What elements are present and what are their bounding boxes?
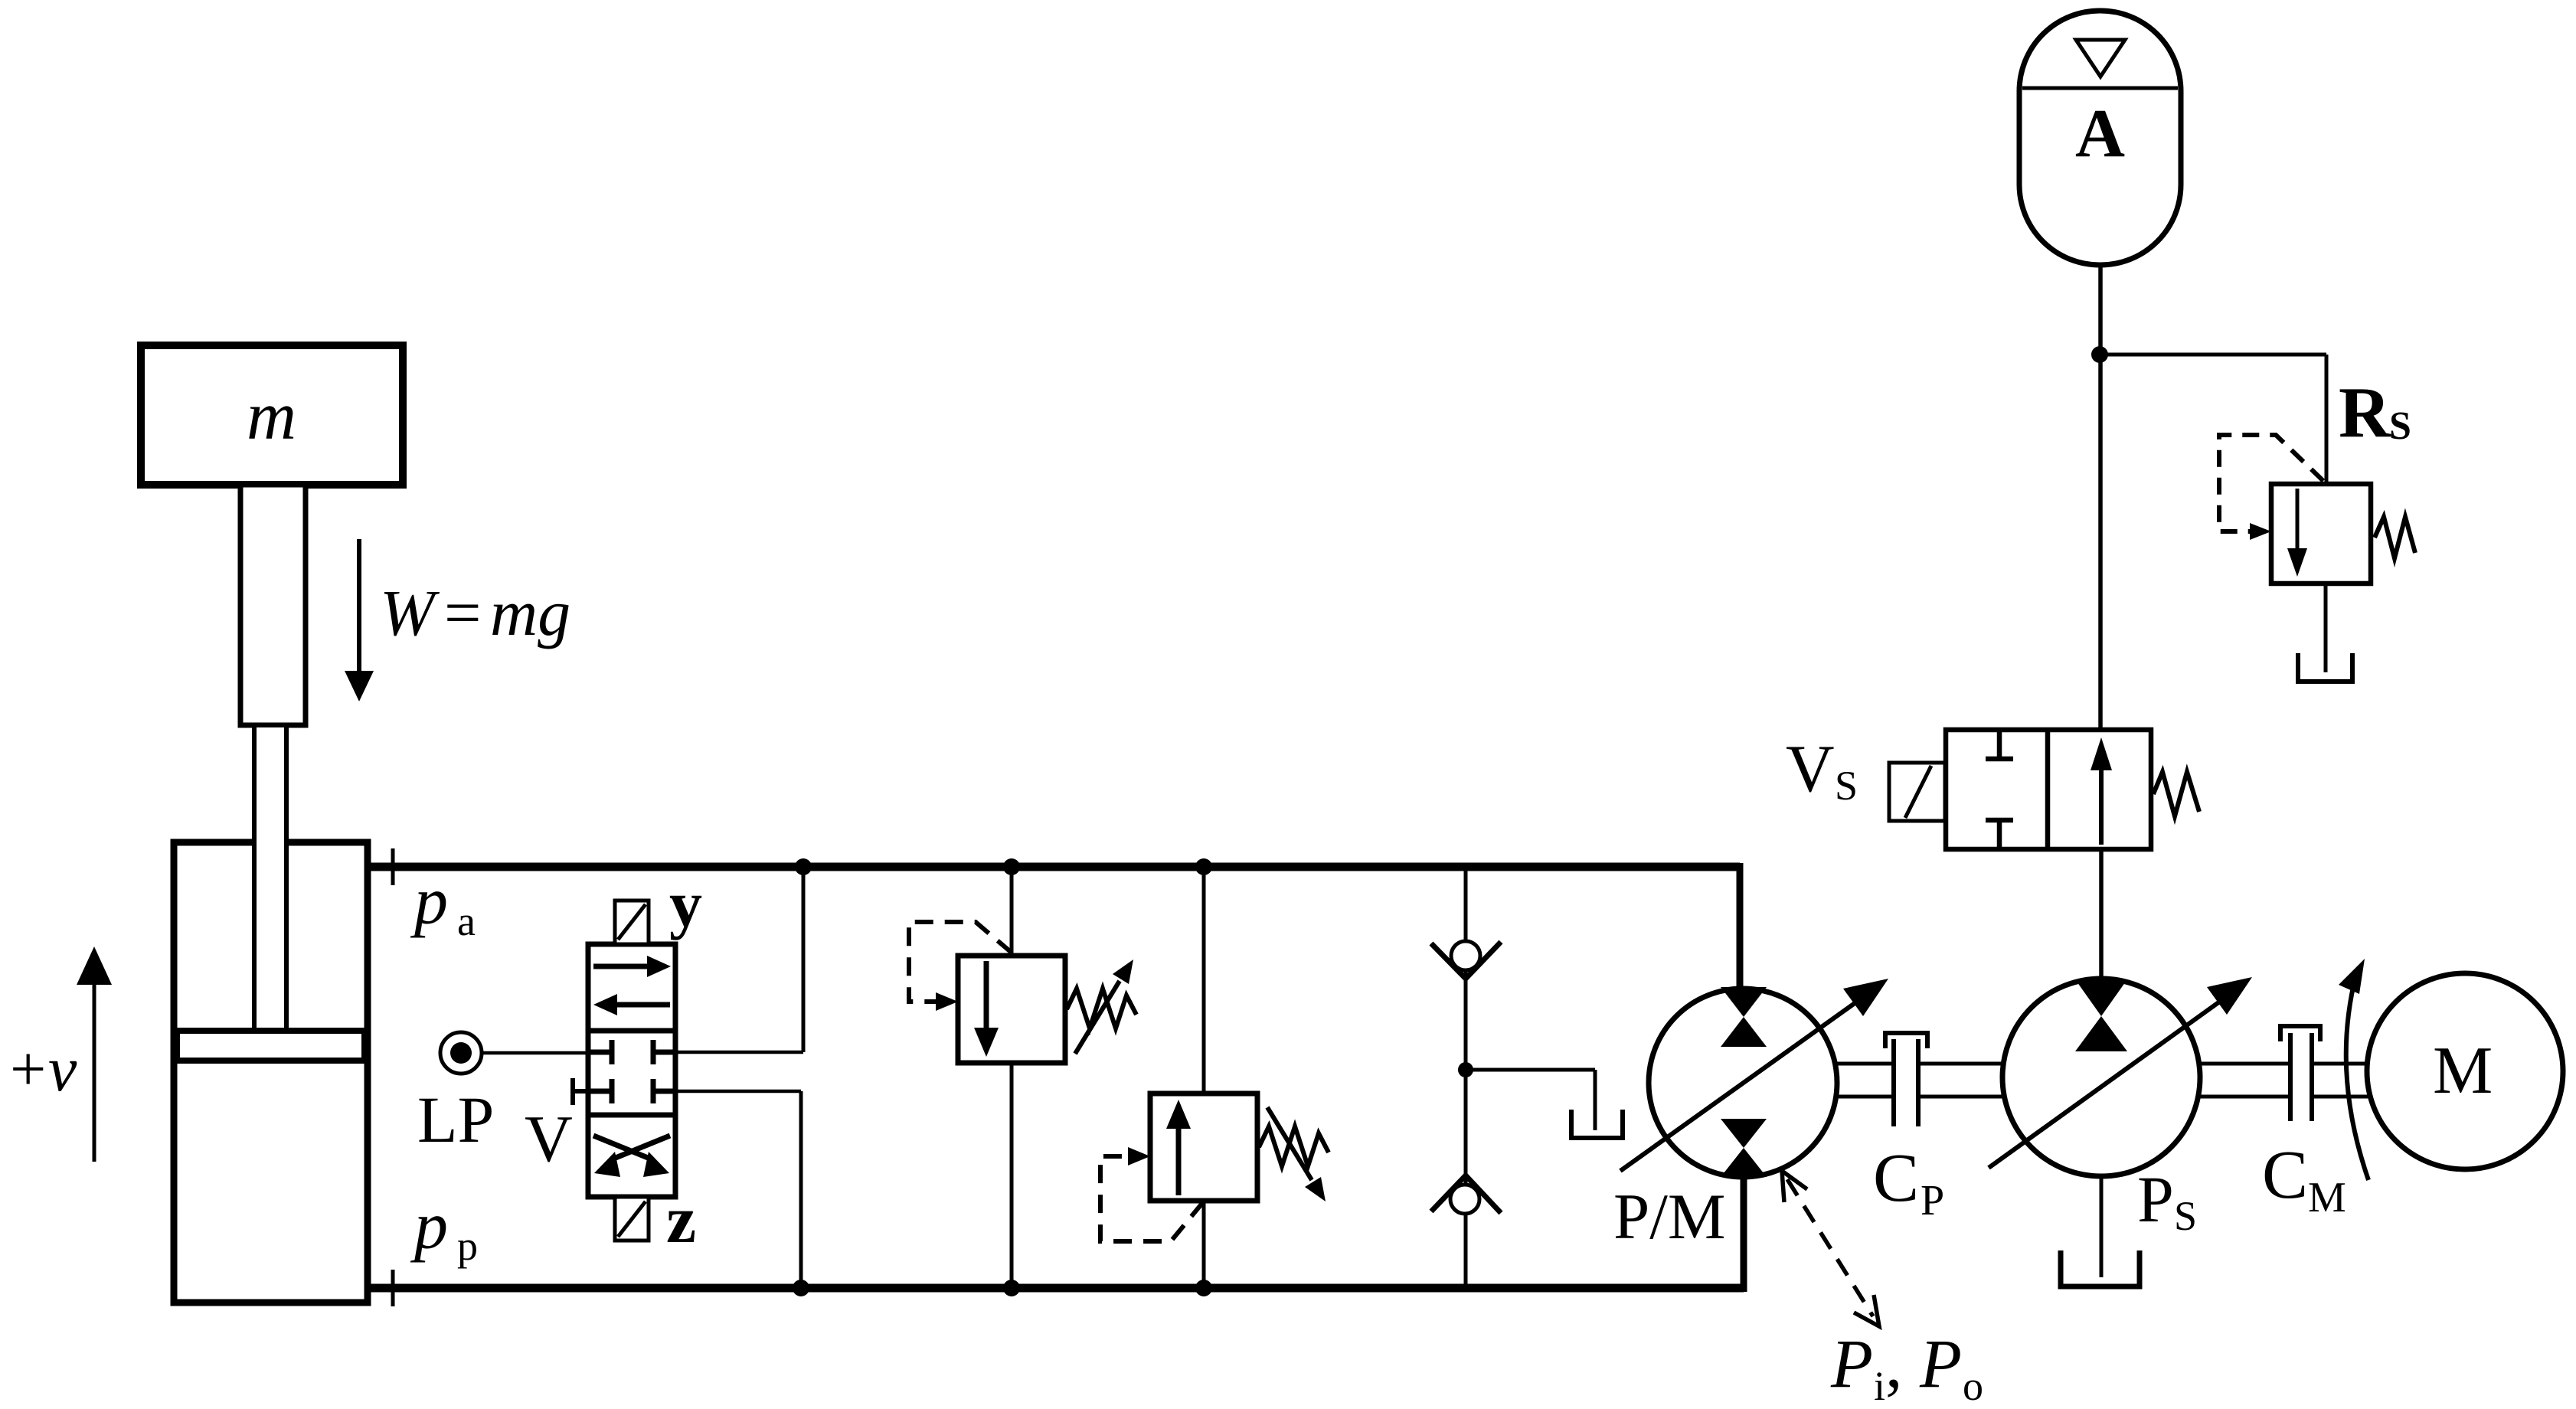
wire RS to tank (2324, 584, 2328, 672)
svg-text:A: A (2075, 96, 2125, 172)
svg-text:o: o (1963, 1363, 1983, 1409)
svg-text:S: S (2389, 404, 2411, 448)
node pp label (410, 1189, 478, 1269)
PS label (2137, 1162, 2197, 1239)
wire check valve branch (1464, 867, 1468, 1288)
valve V top solenoid y (615, 867, 702, 944)
accumulator A (2019, 11, 2181, 265)
wire relief valve 1 branch (1010, 867, 1014, 957)
PS variable displacement arrow (1989, 977, 2252, 1168)
P/M bottom element triangles (1721, 1119, 1767, 1177)
check valve upper (1431, 941, 1501, 979)
svg-text:z: z (666, 1183, 696, 1257)
wire VS down to pump PS (2099, 849, 2104, 980)
relief valve 1 internal arrow (974, 961, 999, 1057)
VS spring (2153, 772, 2199, 816)
svg-text:v: v (48, 1034, 77, 1105)
svg-text:a: a (457, 898, 476, 944)
junction dot bottom bus at valve branch (793, 1280, 809, 1296)
motor M circle (2367, 973, 2563, 1169)
relief valve RS pilot dashed line (2219, 435, 2323, 540)
wire PS to tank (2100, 1175, 2104, 1277)
relief valve 1 pilot dashed line (909, 922, 1012, 1011)
wire top bus pa (365, 863, 1740, 871)
solenoid valve VS body (1946, 730, 2151, 849)
svg-text:mg: mg (490, 576, 570, 649)
shaft CP to pump PS (1918, 1064, 2005, 1097)
shaft PS to coupling CM (2198, 1064, 2290, 1097)
svg-text:p: p (457, 1223, 478, 1269)
relief valve RS spring (2375, 517, 2415, 558)
tank between check valves (1571, 1110, 1623, 1138)
svg-text:i: i (1874, 1363, 1885, 1409)
svg-text:P: P (1830, 1326, 1873, 1402)
svg-text:S: S (2174, 1193, 2197, 1239)
valve V bottom cell crossed arrows (593, 1136, 670, 1177)
svg-text:+: + (10, 1034, 46, 1105)
port tick top (391, 848, 395, 885)
relief valve 2 body (1150, 1094, 1257, 1201)
wire valve V port A to top bus (675, 1051, 803, 1054)
svg-text:m: m (247, 378, 296, 454)
pump/motor P/M circle (1649, 989, 1837, 1177)
shaft CM to motor M (2312, 1064, 2368, 1097)
junction dot check branch (1458, 1062, 1473, 1077)
relief valve 1 spring (1067, 989, 1136, 1028)
svg-text:=: = (444, 576, 482, 649)
coupling CM label (2262, 1137, 2346, 1221)
coupling CM (2280, 1026, 2320, 1121)
coupling CP label (1873, 1140, 1944, 1224)
valve V blocked port stub left (573, 1078, 588, 1105)
rotation arrow at motor shaft (2339, 959, 2368, 1180)
label Pi Po (1830, 1326, 1983, 1409)
junction dot top bus relief 1 (1003, 858, 1020, 875)
wire accumulator down to VS valve (2098, 265, 2103, 731)
svg-text:S: S (1835, 763, 1858, 809)
velocity arrow +v (10, 946, 112, 1162)
svg-text:C: C (2262, 1137, 2308, 1213)
relief valve 2 spring (1259, 1126, 1329, 1166)
valve V bottom solenoid z (615, 1183, 696, 1257)
junction dot bottom bus relief 1 (1003, 1280, 1020, 1296)
shaft P/M to coupling CP (1836, 1064, 1894, 1097)
tank under PS (2061, 1250, 2140, 1286)
svg-text:p: p (410, 865, 448, 939)
VS solenoid box (1889, 763, 1945, 821)
piston rod (upper wide section) (240, 485, 306, 725)
solenoid valve VS label (1786, 732, 1858, 809)
relief valve RS body (2271, 484, 2371, 584)
svg-text:C: C (1873, 1140, 1919, 1216)
check valve lower (1431, 1175, 1501, 1214)
cylinder body (174, 842, 368, 1303)
svg-text:P: P (1921, 1177, 1944, 1224)
valve V top cell arrow left (593, 994, 670, 1015)
dashed annotation arrow to Pi Po (1782, 1171, 1879, 1326)
VS right cell up arrow (2091, 737, 2112, 845)
relief valve RS internal arrow (2287, 489, 2307, 577)
svg-text:p: p (410, 1189, 448, 1264)
junction dot top bus at valve branch (795, 858, 812, 875)
relief valve 2 pilot dashed line (1100, 1147, 1203, 1241)
svg-text:W: W (380, 576, 440, 649)
valve V top cell arrow right (593, 956, 671, 977)
PS element triangles (2075, 979, 2127, 1051)
piston rod (lower narrow section) (254, 725, 286, 1035)
weight arrow W=mg (345, 539, 570, 701)
svg-text:M: M (2433, 1034, 2493, 1108)
wire branch to RS valve (2100, 355, 2326, 488)
P/M variable displacement arrow (1620, 979, 1888, 1171)
wire LP to valve V (482, 1051, 588, 1055)
pump PS circle (2002, 979, 2200, 1176)
svg-text:P/M: P/M (1613, 1181, 1725, 1253)
wire to tank between checks (1466, 1070, 1595, 1130)
wire relief valve 2 branch (1202, 867, 1206, 1095)
svg-text:R: R (2339, 373, 2391, 453)
relief valve RS label (2339, 373, 2411, 453)
port tick bottom (391, 1270, 395, 1306)
valve V centre cell closed port T bars (588, 1040, 675, 1103)
wire bottom bus pp (365, 1284, 1744, 1293)
relief valve 2 internal arrow (1166, 1100, 1191, 1195)
relief valve 2 variable arrow (1267, 1107, 1326, 1201)
mass block m (141, 345, 403, 485)
relief valve 1 variable arrow (1075, 959, 1133, 1054)
svg-text:y: y (669, 867, 702, 940)
tank under RS (2298, 653, 2352, 682)
svg-text:V: V (525, 1101, 573, 1175)
wire bottom bus turn up to P/M (1741, 1175, 1747, 1292)
P/M top element triangles (1721, 987, 1767, 1047)
wire top bus turn down to P/M (1737, 863, 1744, 990)
junction dot bottom bus relief 2 (1195, 1280, 1212, 1296)
node pa label (410, 865, 476, 944)
coupling CP (1885, 1033, 1927, 1126)
svg-text:P: P (2137, 1162, 2174, 1236)
junction dot accumulator branch (2091, 346, 2108, 363)
junction dot top bus relief 2 (1195, 858, 1212, 875)
svg-text:P: P (1919, 1326, 1962, 1402)
relief valve 1 body (958, 956, 1065, 1063)
svg-text:LP: LP (417, 1083, 494, 1156)
svg-text:,: , (1885, 1326, 1903, 1402)
valve V body (4/3 directional valve) (588, 944, 675, 1197)
svg-text:M: M (2308, 1174, 2346, 1221)
wire valve V port B to bottom bus (675, 1090, 801, 1094)
VS left cell closed port T bars (1986, 730, 2013, 849)
gauge LP (417, 1032, 494, 1156)
piston (177, 1031, 364, 1061)
svg-text:V: V (1786, 732, 1835, 806)
